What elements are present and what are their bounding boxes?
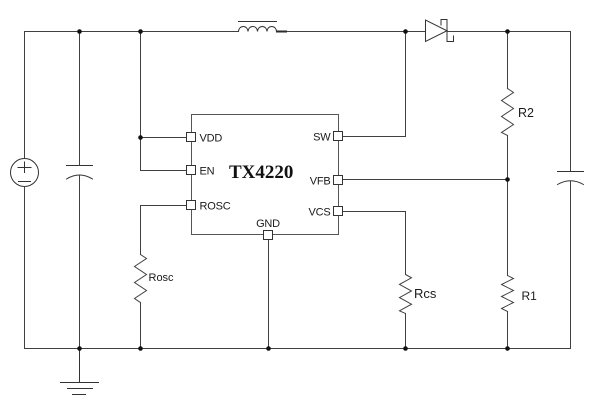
node dot VFB / R1 R2 xyxy=(505,177,510,182)
svg-text:Rcs: Rcs xyxy=(414,286,437,301)
wire R1 bottom xyxy=(507,312,509,349)
node dot top SW xyxy=(403,29,408,34)
svg-text:GND: GND xyxy=(256,218,280,230)
svg-text:VFB: VFB xyxy=(310,176,331,188)
wire VFB branch xyxy=(343,179,508,181)
svg-text:SW: SW xyxy=(313,132,331,144)
wire GND pin to rail xyxy=(268,240,270,349)
capacitor C1 wire lower xyxy=(79,175,81,349)
capacitor C2 xyxy=(558,172,584,185)
wire EN xyxy=(141,170,188,172)
svg-text:ROSC: ROSC xyxy=(200,201,231,213)
node dot bottom RCS xyxy=(403,346,408,351)
pin VFB square xyxy=(334,176,343,185)
pin EN square xyxy=(187,166,196,175)
wire top rail left segment xyxy=(25,31,239,33)
node dot top C1 xyxy=(77,29,82,34)
diode D1 (Schottky) xyxy=(426,20,454,42)
node dot bottom R1 xyxy=(505,346,510,351)
wire top rail middle segment xyxy=(277,31,426,33)
ground symbol xyxy=(61,349,99,395)
capacitor C1 xyxy=(67,166,93,180)
wire VDD xyxy=(141,137,188,139)
capacitor C2 wire upper xyxy=(570,32,572,172)
wire R2 top xyxy=(507,32,509,89)
wire SW branch xyxy=(343,32,406,137)
pin GND square xyxy=(264,231,273,240)
resistor RCS xyxy=(400,275,412,314)
resistor Rosc xyxy=(135,255,147,303)
wire R2 bottom / VFB node xyxy=(507,136,509,180)
svg-text:R2: R2 xyxy=(518,106,534,120)
wire top rail right segment xyxy=(447,31,571,33)
node dot bottom Rosc xyxy=(138,346,143,351)
wire RCS to ground rail xyxy=(405,314,407,349)
node dot top VDD branch xyxy=(138,29,143,34)
wire Rosc to ground rail xyxy=(140,303,142,349)
pin ROSC square xyxy=(187,201,196,210)
wire inductor terminal stub xyxy=(277,31,286,33)
wire R1 top xyxy=(507,180,509,276)
inductor L1 xyxy=(239,22,277,32)
svg-text:TX4220: TX4220 xyxy=(229,162,293,183)
pin VDD square xyxy=(187,133,196,142)
svg-text:Rosc: Rosc xyxy=(149,272,175,284)
capacitor C2 wire lower xyxy=(570,181,572,349)
wire VCS branch xyxy=(343,212,406,275)
wire VDD/EN branch vertical xyxy=(140,32,142,171)
wire left vertical lower xyxy=(24,187,26,349)
resistor R2 xyxy=(502,89,514,136)
pin VCS square xyxy=(334,207,343,216)
node dot bottom GND pin xyxy=(266,346,271,351)
wire ROSC xyxy=(141,206,188,255)
svg-text:EN: EN xyxy=(200,166,215,178)
wire bottom rail xyxy=(25,348,571,350)
op IC U1 TX4220 body xyxy=(192,115,339,235)
svg-text:VDD: VDD xyxy=(200,133,223,145)
node dot top R2 xyxy=(505,29,510,34)
svg-text:R1: R1 xyxy=(522,289,538,303)
pin SW square xyxy=(334,132,343,141)
capacitor C1 wire upper xyxy=(79,32,81,166)
node dot bottom C1/gnd xyxy=(77,346,82,351)
svg-text:VCS: VCS xyxy=(308,207,330,219)
resistor R1 xyxy=(502,276,514,312)
wire left vertical upper xyxy=(24,32,26,159)
voltage source V1 xyxy=(11,159,39,187)
node dot VDD wire xyxy=(138,135,143,140)
